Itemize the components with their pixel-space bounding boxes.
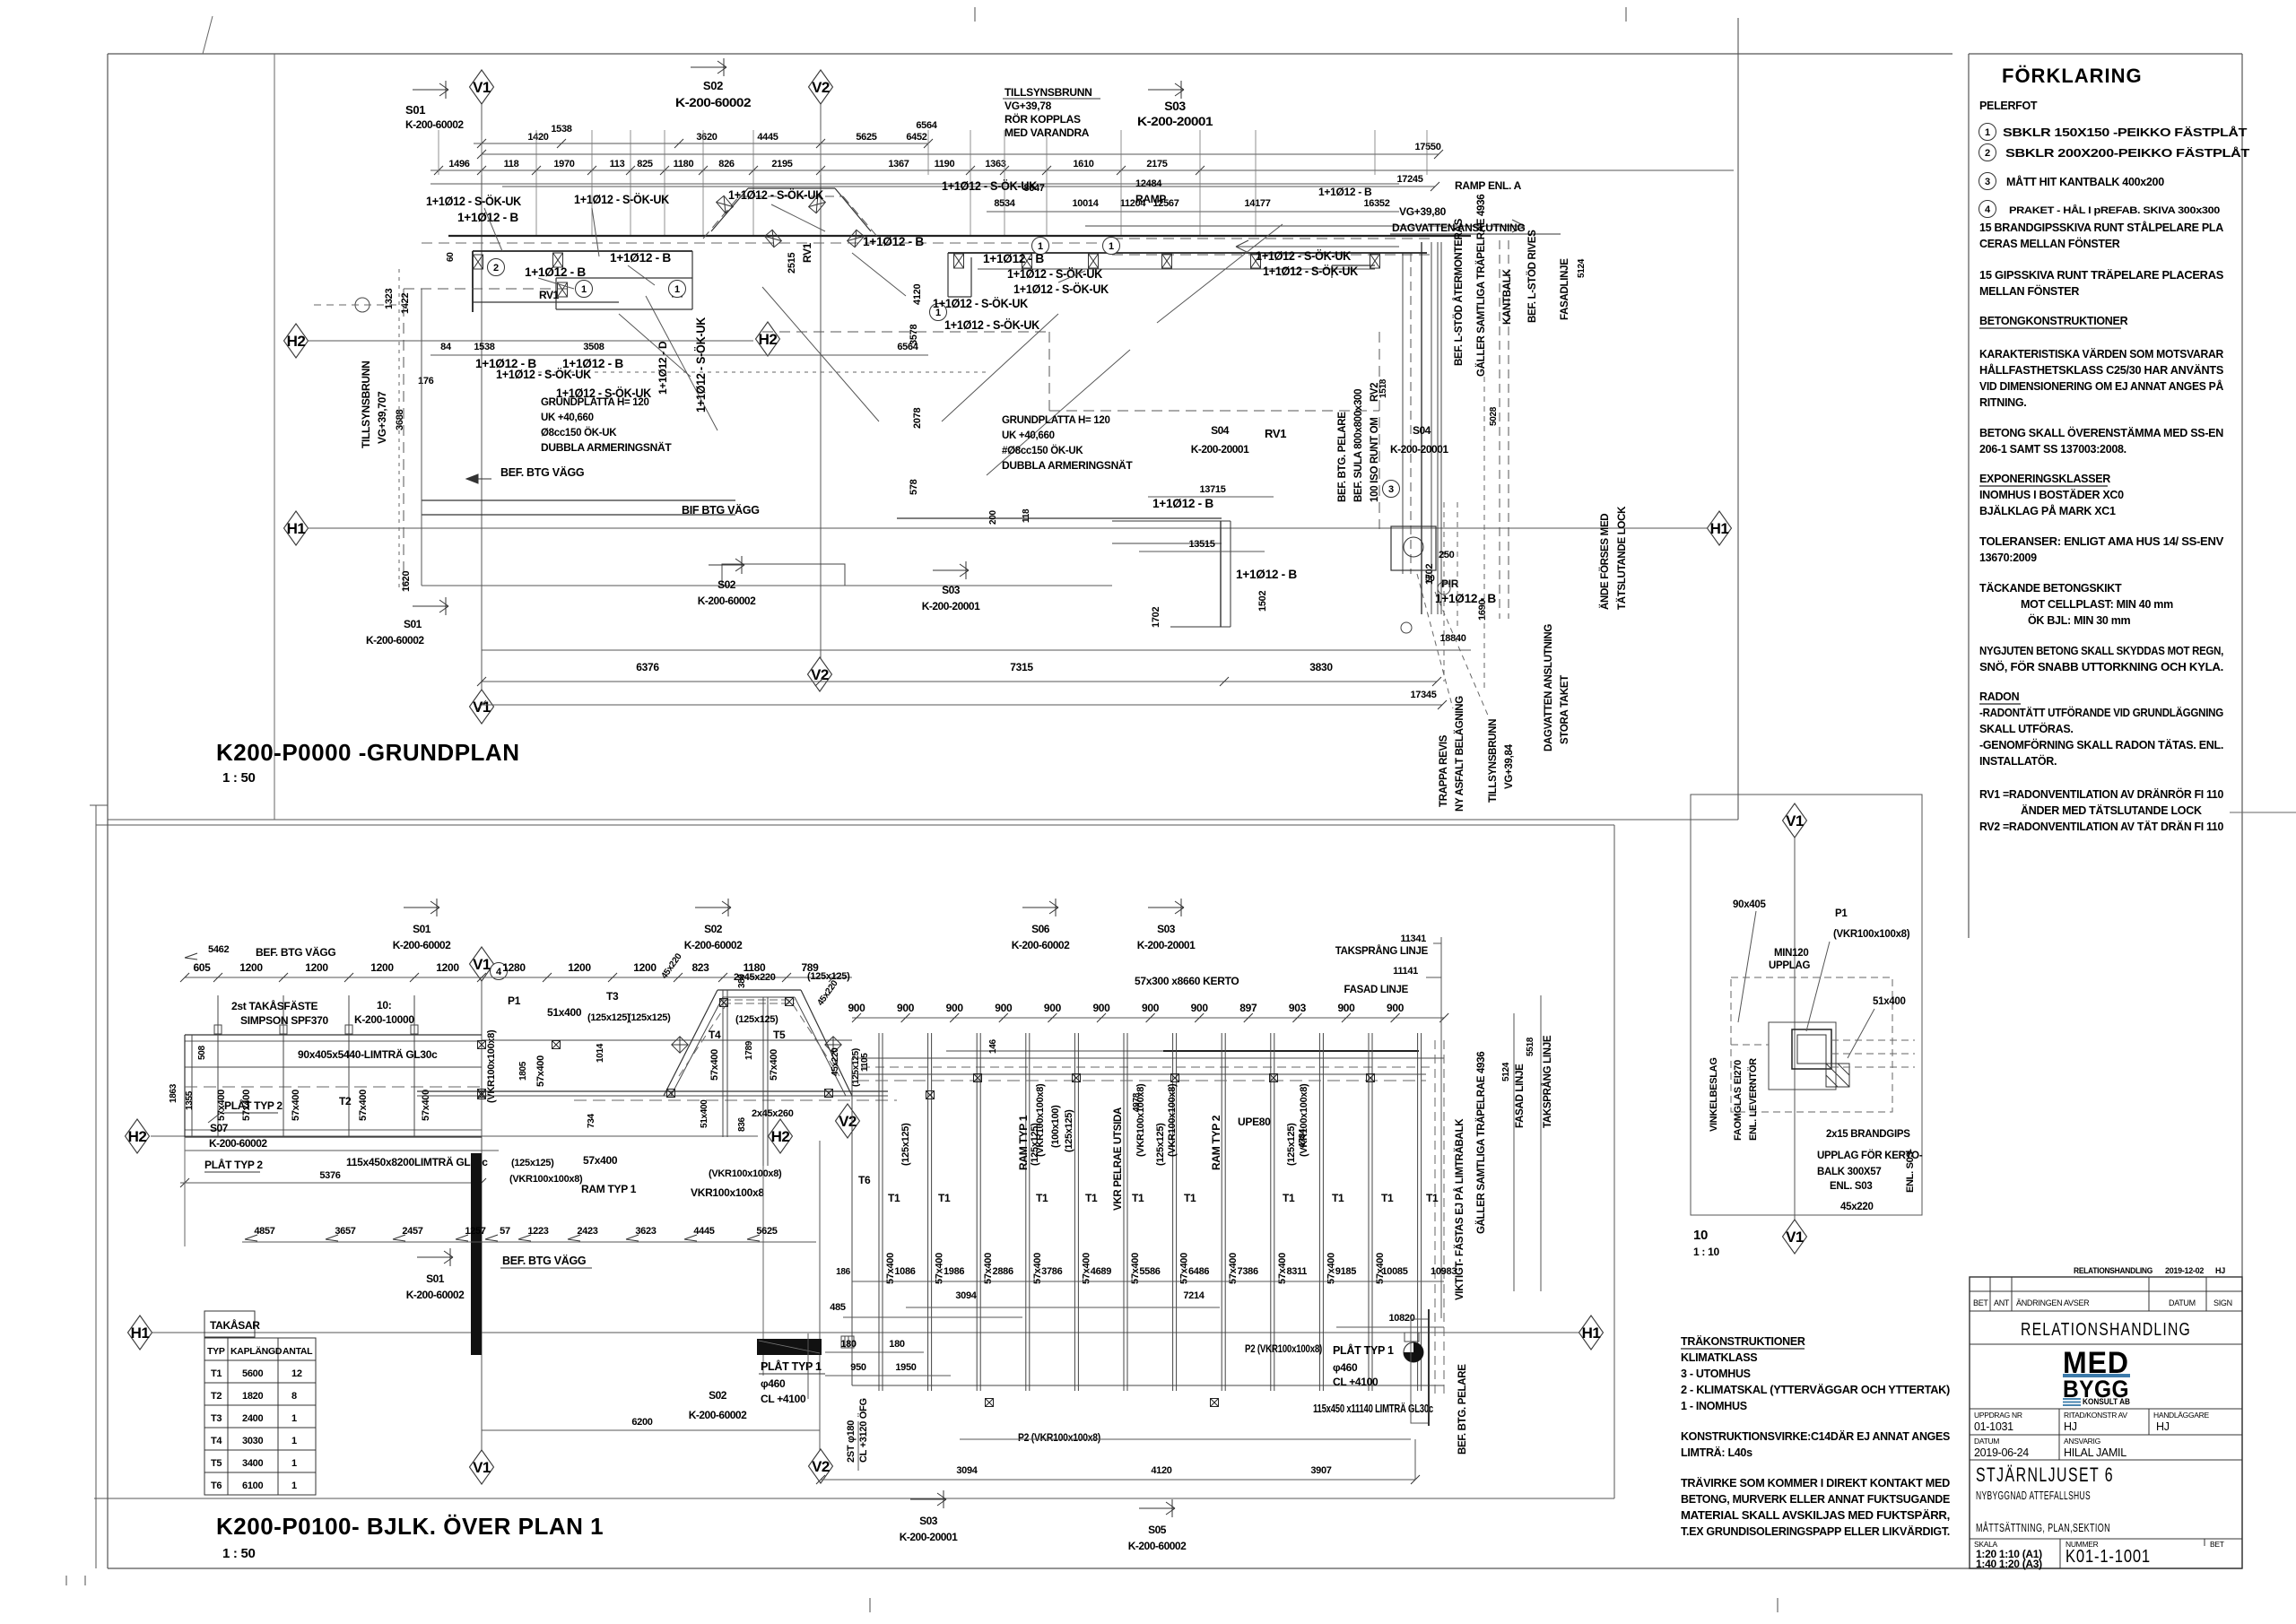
svg-text:1950: 1950 xyxy=(895,1362,916,1373)
svg-text:-GENOMFÖRNING SKALL RADON TÄTA: -GENOMFÖRNING SKALL RADON TÄTAS. ENL. xyxy=(1979,738,2223,751)
svg-text:SIMPSON SPF370: SIMPSON SPF370 xyxy=(240,1014,328,1027)
svg-text:180: 180 xyxy=(889,1339,905,1350)
svg-text:K-200-20001: K-200-20001 xyxy=(900,1531,958,1543)
svg-text:KANTBALK: KANTBALK xyxy=(1502,269,1513,325)
octagon pillar diamond right xyxy=(825,1037,841,1053)
svg-text:RITNING.: RITNING. xyxy=(1979,396,2026,409)
svg-text:V2: V2 xyxy=(839,1113,857,1130)
svg-text:900: 900 xyxy=(1337,1002,1355,1014)
svg-text:CL +3120 ÖFG: CL +3120 ÖFG xyxy=(857,1398,869,1463)
svg-text:RV1 =RADONVENTILATION AV DRÄNR: RV1 =RADONVENTILATION AV DRÄNRÖR FI 110 xyxy=(1979,787,2223,801)
diamond H2 right bottomplan xyxy=(769,1119,793,1153)
circle 3 right xyxy=(1383,481,1400,498)
svg-text:1+1Ø12 - S-ÖK-UK: 1+1Ø12 - S-ÖK-UK xyxy=(1256,248,1351,263)
svg-text:VG+39,84: VG+39,84 xyxy=(1504,743,1515,789)
svg-text:S05: S05 xyxy=(1148,1524,1167,1536)
svg-text:578: 578 xyxy=(909,479,919,495)
svg-text:1 : 50: 1 : 50 xyxy=(222,770,256,786)
svg-text:MÅTTSÄTTNING, PLAN,SEKTION: MÅTTSÄTTNING, PLAN,SEKTION xyxy=(1976,1521,2110,1534)
svg-text:FAOMGLAS EI270: FAOMGLAS EI270 xyxy=(1733,1060,1744,1141)
svg-text:RITAD/KONSTR AV: RITAD/KONSTR AV xyxy=(2064,1411,2127,1420)
svg-text:VG+39,707: VG+39,707 xyxy=(376,391,388,444)
svg-text:1: 1 xyxy=(291,1436,297,1446)
svg-text:K200-P0100- BJLK. ÖVER PLAN 1: K200-P0100- BJLK. ÖVER PLAN 1 xyxy=(216,1513,604,1540)
grid diamond H1 right xyxy=(1708,511,1732,545)
svg-text:18840: 18840 xyxy=(1439,633,1465,644)
svg-text:HÅLLFASTHETSKLASS C25/30 HAR A: HÅLLFASTHETSKLASS C25/30 HAR ANVÄNTS xyxy=(1979,363,2223,377)
ramp dashed band xyxy=(1112,238,1431,239)
svg-text:6452: 6452 xyxy=(906,132,926,143)
svg-text:T2: T2 xyxy=(211,1391,222,1402)
svg-text:NYBYGGNAD ATTEFALLSHUS: NYBYGGNAD ATTEFALLSHUS xyxy=(1976,1489,2091,1502)
svg-text:TOLERANSER: ENLIGT AMA HUS 14/: TOLERANSER: ENLIGT AMA HUS 14/ SS-ENV xyxy=(1979,535,2224,548)
svg-text:T6: T6 xyxy=(211,1481,222,1491)
svg-text:1+1Ø12 - S-ÖK-UK: 1+1Ø12 - S-ÖK-UK xyxy=(574,192,669,206)
svg-text:P2 (VKR100x100x8): P2 (VKR100x100x8) xyxy=(1245,1342,1322,1355)
svg-text:13515: 13515 xyxy=(1188,539,1214,550)
svg-text:(100x100): (100x100) xyxy=(1050,1105,1061,1148)
joist square P1 xyxy=(478,1041,486,1049)
pillar right band 1 xyxy=(1022,254,1032,268)
forklaring circle 3 xyxy=(1979,173,1996,190)
detail outer square xyxy=(1769,1022,1836,1090)
svg-text:TÄCKANDE BETONGSKIKT: TÄCKANDE BETONGSKIKT xyxy=(1979,581,2122,595)
sheet top border xyxy=(108,53,1952,55)
fold mark bottom 2 xyxy=(1777,1598,1779,1612)
svg-text:2x45x260: 2x45x260 xyxy=(752,1108,794,1119)
svg-text:1610: 1610 xyxy=(1073,159,1093,169)
octagon beam vertical extensions xyxy=(762,1166,764,1376)
svg-text:1 : 10: 1 : 10 xyxy=(1693,1246,1720,1258)
octagon plateau dashes xyxy=(723,999,795,1001)
svg-text:KARAKTERISTISKA VÄRDEN SOM MOT: KARAKTERISTISKA VÄRDEN SOM MOTSVARAR xyxy=(1979,347,2223,360)
svg-text:1+1Ø12 - S-ÖK-UK: 1+1Ø12 - S-ÖK-UK xyxy=(1013,282,1109,296)
svg-text:2078: 2078 xyxy=(912,408,923,429)
svg-text:45x220: 45x220 xyxy=(1840,1202,1874,1212)
svg-text:57: 57 xyxy=(500,1226,510,1237)
svg-text:T4: T4 xyxy=(211,1436,222,1446)
lower wall band lines xyxy=(422,499,735,501)
leader crossing top border xyxy=(203,16,213,54)
svg-text:MATERIAL SKALL AVSKILJAS MED F: MATERIAL SKALL AVSKILJAS MED FUKTSPÄRR, xyxy=(1681,1508,1950,1522)
svg-text:BETONG, MURVERK ELLER ANNAT FU: BETONG, MURVERK ELLER ANNAT FUKTSUGANDE xyxy=(1681,1493,1950,1506)
svg-text:(125x125): (125x125) xyxy=(1030,1123,1040,1166)
svg-text:57x400: 57x400 xyxy=(216,1090,227,1121)
svg-text:UPPDRAG NR: UPPDRAG NR xyxy=(1974,1411,2022,1420)
pillar left band b xyxy=(558,282,568,297)
svg-text:1789: 1789 xyxy=(744,1040,754,1060)
svg-text:1+1Ø12 - S-ÖK-UK: 1+1Ø12 - S-ÖK-UK xyxy=(426,194,521,208)
svg-text:MELLAN FÖNSTER: MELLAN FÖNSTER xyxy=(1979,284,2079,298)
svg-text:1+1Ø12 - S-ÖK-UK: 1+1Ø12 - S-ÖK-UK xyxy=(693,317,708,413)
svg-text:(125x125): (125x125) xyxy=(900,1123,911,1166)
svg-text:7315: 7315 xyxy=(1010,661,1033,673)
svg-text:S03: S03 xyxy=(1157,923,1176,935)
svg-text:6376: 6376 xyxy=(636,661,659,673)
svg-text:S04: S04 xyxy=(1413,424,1431,437)
svg-text:KAPLÄNGD: KAPLÄNGD xyxy=(230,1345,283,1357)
svg-text:NYGJUTEN BETONG SKALL SKYDDAS: NYGJUTEN BETONG SKALL SKYDDAS MOT REGN, xyxy=(1979,645,2223,657)
svg-text:BET: BET xyxy=(2210,1540,2224,1549)
svg-text:1280: 1280 xyxy=(502,961,526,974)
dim rows bottom of grundplan xyxy=(482,649,1471,651)
svg-text:7386: 7386 xyxy=(1238,1266,1258,1277)
revision row lines xyxy=(1970,1290,2242,1292)
svg-text:(125x125): (125x125) xyxy=(735,1014,778,1025)
svg-text:RÖR KOPPLAS: RÖR KOPPLAS xyxy=(1004,112,1081,126)
svg-text:57x400: 57x400 xyxy=(421,1090,431,1121)
svg-text:1690: 1690 xyxy=(1477,600,1488,621)
diamond V2 bottom bottomplan xyxy=(809,1449,833,1483)
circle 1 b xyxy=(669,281,686,298)
V1 detail viewport frame xyxy=(1691,795,1922,1215)
left bef wall vertical top plan xyxy=(421,289,422,586)
V1 detail grid line xyxy=(1794,834,1796,1226)
svg-text:950: 950 xyxy=(850,1362,866,1373)
svg-text:113: 113 xyxy=(610,159,625,169)
right section bottom dims xyxy=(852,1281,1444,1282)
svg-text:2515: 2515 xyxy=(787,253,797,274)
svg-text:V1: V1 xyxy=(473,1459,491,1476)
svg-text:57x400: 57x400 xyxy=(535,1055,546,1087)
svg-text:VKR PELRAE UTSIDA: VKR PELRAE UTSIDA xyxy=(1113,1107,1124,1211)
svg-text:HJ: HJ xyxy=(2064,1420,2077,1433)
roof notch diagonals dashed xyxy=(703,196,739,239)
svg-text:2: 2 xyxy=(1985,148,1990,159)
svg-text:BET: BET xyxy=(1973,1298,1988,1307)
svg-text:1422: 1422 xyxy=(400,293,411,314)
svg-text:4445: 4445 xyxy=(757,132,778,143)
svg-text:118: 118 xyxy=(504,159,519,169)
left wing joists xyxy=(217,995,219,1137)
svg-text:6564: 6564 xyxy=(916,120,937,131)
svg-text:K01-1-1001: K01-1-1001 xyxy=(2066,1547,2151,1567)
svg-text:2019-06-24: 2019-06-24 xyxy=(1974,1446,2029,1459)
svg-text:8: 8 xyxy=(291,1391,297,1402)
svg-text:7214: 7214 xyxy=(1183,1290,1205,1301)
svg-text:V1: V1 xyxy=(1786,812,1804,829)
svg-text:10:: 10: xyxy=(377,999,391,1012)
svg-text:90x405x5440-LIMTRÄ GL30c: 90x405x5440-LIMTRÄ GL30c xyxy=(298,1047,438,1061)
svg-text:5124: 5124 xyxy=(1577,258,1587,278)
svg-text:3830: 3830 xyxy=(1309,661,1333,673)
svg-text:T1: T1 xyxy=(1085,1192,1098,1204)
svg-text:T1: T1 xyxy=(1132,1192,1144,1204)
svg-text:1180: 1180 xyxy=(674,159,694,169)
svg-text:1: 1 xyxy=(581,284,587,295)
svg-text:(125x125): (125x125) xyxy=(807,971,850,982)
svg-text:57x400: 57x400 xyxy=(709,1049,720,1081)
svg-text:V1: V1 xyxy=(473,79,491,96)
svg-text:1702: 1702 xyxy=(1151,607,1161,628)
bottom area frame xyxy=(95,805,97,1568)
svg-text:4: 4 xyxy=(496,967,502,977)
svg-text:NY ASFALT BELÄGNING: NY ASFALT BELÄGNING xyxy=(1454,696,1465,812)
kantbalk vertical band right xyxy=(1402,253,1404,574)
svg-text:5600: 5600 xyxy=(242,1368,263,1379)
svg-text:1200: 1200 xyxy=(305,961,328,974)
svg-text:6200: 6200 xyxy=(631,1417,652,1428)
svg-text:STORA TAKET: STORA TAKET xyxy=(1560,675,1570,744)
svg-text:K-200-60002: K-200-60002 xyxy=(209,1137,267,1150)
svg-text:S02: S02 xyxy=(717,578,736,591)
svg-text:1+1Ø12 - S-ÖK-UK: 1+1Ø12 - S-ÖK-UK xyxy=(933,296,1028,310)
svg-text:DUBBLA ARMERINGSNÄT: DUBBLA ARMERINGSNÄT xyxy=(1002,458,1133,472)
svg-text:5518: 5518 xyxy=(1526,1037,1535,1056)
svg-text:1200: 1200 xyxy=(436,961,459,974)
grid line V2 top plan xyxy=(820,100,822,668)
svg-text:S01: S01 xyxy=(426,1272,445,1285)
svg-text:508: 508 xyxy=(197,1045,207,1060)
svg-text:2st TAKÅSFÄSTE: 2st TAKÅSFÄSTE xyxy=(231,999,318,1012)
svg-text:1+1Ø12 - D: 1+1Ø12 - D xyxy=(657,341,669,395)
svg-text:836: 836 xyxy=(737,1116,747,1132)
svg-text:2019-12-02: 2019-12-02 xyxy=(2165,1266,2204,1275)
svg-text:S04: S04 xyxy=(1211,424,1230,437)
svg-text:200: 200 xyxy=(988,509,998,525)
svg-text:V2: V2 xyxy=(812,1458,830,1475)
svg-text:H1: H1 xyxy=(287,520,306,537)
beam conn a xyxy=(974,1074,982,1082)
pillar right band 2 xyxy=(1089,254,1099,268)
grid line H2 top plan xyxy=(309,340,753,342)
svg-text:INSTALLATÖR.: INSTALLATÖR. xyxy=(1979,754,2057,768)
svg-text:S07: S07 xyxy=(210,1122,229,1134)
svg-text:900: 900 xyxy=(1191,1002,1209,1014)
svg-text:P2 (VKR100x100x8): P2 (VKR100x100x8) xyxy=(1018,1431,1100,1444)
svg-text:ÖK BJL: MIN 30 mm: ÖK BJL: MIN 30 mm xyxy=(2028,613,2131,627)
svg-text:5625: 5625 xyxy=(856,132,876,143)
svg-text:900: 900 xyxy=(1387,1002,1405,1014)
grid H2 bottom plan xyxy=(151,1135,758,1137)
svg-text:8311: 8311 xyxy=(1286,1266,1307,1277)
pillar roof notch left xyxy=(717,195,734,213)
pillar right band 3 xyxy=(1162,254,1172,268)
svg-text:57x300 x8660 KERTO: 57x300 x8660 KERTO xyxy=(1135,975,1239,987)
svg-text:BJÄLKLAG PÅ MARK XC1: BJÄLKLAG PÅ MARK XC1 xyxy=(1979,504,2116,517)
section arrow S03 top xyxy=(1148,81,1184,99)
top plan viewport frame xyxy=(1737,18,1739,820)
svg-text:TÄTSLUTANDE LOCK: TÄTSLUTANDE LOCK xyxy=(1616,506,1628,610)
svg-text:17550: 17550 xyxy=(1414,142,1440,152)
svg-text:1420: 1420 xyxy=(527,132,548,143)
octagon joist right xyxy=(786,998,794,1006)
svg-text:11341: 11341 xyxy=(1401,934,1427,944)
svg-text:SIGN: SIGN xyxy=(2213,1298,2232,1307)
fold mark top 2 xyxy=(1625,7,1627,22)
svg-text:1805: 1805 xyxy=(518,1061,528,1081)
svg-text:K-200-60002: K-200-60002 xyxy=(366,634,424,647)
P2 square b xyxy=(1211,1399,1219,1407)
detail dashed frame xyxy=(1731,977,1892,1112)
info row line xyxy=(1970,1408,2242,1410)
svg-text:MOT CELLPLAST: MIN 40 mm: MOT CELLPLAST: MIN 40 mm xyxy=(2021,598,2173,611)
grid V2 bottom plan xyxy=(819,1141,821,1453)
black bar V1 xyxy=(471,1153,482,1355)
svg-text:1+1Ø12 - B: 1+1Ø12 - B xyxy=(1236,567,1297,581)
svg-text:T1: T1 xyxy=(211,1368,222,1379)
dashed outline mid xyxy=(762,331,1049,333)
svg-text:K-200-60002: K-200-60002 xyxy=(684,939,743,951)
detail leader lines xyxy=(1738,911,1756,1022)
svg-text:HANDLÄGGARE: HANDLÄGGARE xyxy=(2153,1411,2210,1420)
svg-text:S01: S01 xyxy=(405,103,425,117)
svg-text:K-200-20001: K-200-20001 xyxy=(1390,443,1448,456)
svg-text:PLÅT TYP 2: PLÅT TYP 2 xyxy=(224,1099,283,1112)
grid diamond V2 bottom xyxy=(808,657,832,691)
svg-text:3 - UTOMHUS: 3 - UTOMHUS xyxy=(1681,1368,1751,1380)
svg-text:5462: 5462 xyxy=(208,944,229,955)
svg-text:UPPLAG: UPPLAG xyxy=(1769,960,1810,971)
svg-text:2400: 2400 xyxy=(242,1413,263,1424)
circle 1 a xyxy=(576,281,593,298)
svg-text:3: 3 xyxy=(1388,484,1394,495)
svg-text:MÅTT HIT KANTBALK 400x200: MÅTT HIT KANTBALK 400x200 xyxy=(2006,175,2164,188)
diamond H1 right bottomplan xyxy=(1579,1316,1604,1350)
right section outline xyxy=(946,1050,1163,1052)
svg-text:ENL. LEVERNTÖR: ENL. LEVERNTÖR xyxy=(1747,1058,1759,1141)
dashed verticals bottom right xyxy=(1443,502,1445,682)
svg-text:ANSVARIG: ANSVARIG xyxy=(2064,1437,2100,1446)
center beams xyxy=(482,1039,852,1041)
svg-text:3786: 3786 xyxy=(1041,1266,1062,1277)
svg-text:1+1Ø12 - S-ÖK-UK: 1+1Ø12 - S-ÖK-UK xyxy=(496,367,591,381)
svg-text:VIKTIGT- FÄSTAS EJ PÅ LIMTRÄBA: VIKTIGT- FÄSTAS EJ PÅ LIMTRÄBALK xyxy=(1454,1118,1465,1300)
svg-text:8534: 8534 xyxy=(994,198,1015,209)
diamond V2 mid bottomplan xyxy=(836,1104,860,1138)
svg-text:146: 146 xyxy=(988,1038,998,1054)
svg-text:S03: S03 xyxy=(942,584,961,596)
svg-text:RAM TYP 1: RAM TYP 1 xyxy=(1017,1115,1030,1170)
svg-text:51x400: 51x400 xyxy=(700,1099,709,1128)
right section joists T1 xyxy=(878,1033,880,1391)
svg-text:3508: 3508 xyxy=(583,342,604,352)
svg-text:UK +40,660: UK +40,660 xyxy=(1002,430,1055,441)
pillar left band a xyxy=(553,253,563,267)
svg-text:1+1Ø12 - B: 1+1Ø12 - B xyxy=(983,251,1044,265)
svg-text:BEF. BTG VÄGG: BEF. BTG VÄGG xyxy=(256,945,335,959)
svg-text:1200: 1200 xyxy=(370,961,394,974)
svg-text:BEF. BTG. PELARE: BEF. BTG. PELARE xyxy=(1337,412,1348,502)
forklaring circle 2 xyxy=(1979,144,1996,161)
top-right corner walls xyxy=(1375,252,1427,254)
svg-text:15 BRANDGIPSSKIVA RUNT STÅLPEL: 15 BRANDGIPSSKIVA RUNT STÅLPELARE PLA xyxy=(1979,221,2223,234)
svg-text:V2: V2 xyxy=(811,666,829,683)
svg-text:T6: T6 xyxy=(858,1174,871,1186)
svg-text:TYP: TYP xyxy=(207,1346,225,1357)
svg-text:S03: S03 xyxy=(1164,99,1186,113)
svg-text:H2: H2 xyxy=(771,1128,790,1145)
bottom plan top dim row xyxy=(185,977,852,978)
svg-text:DATUM: DATUM xyxy=(1974,1437,1999,1446)
svg-text:(125x125): (125x125) xyxy=(1155,1123,1166,1166)
svg-text:T5: T5 xyxy=(211,1458,222,1469)
svg-text:TAKSPRÅNG LINJE: TAKSPRÅNG LINJE xyxy=(1542,1035,1553,1128)
svg-text:57x400: 57x400 xyxy=(291,1090,301,1121)
svg-text:1 : 50: 1 : 50 xyxy=(222,1546,256,1561)
ramp long arrow xyxy=(1085,225,1525,227)
octagon bay outline xyxy=(664,990,717,1096)
svg-text:KLIMATKLASS: KLIMATKLASS xyxy=(1681,1351,1757,1364)
svg-text:3094: 3094 xyxy=(956,1465,978,1476)
svg-text:1200: 1200 xyxy=(239,961,263,974)
svg-text:1355: 1355 xyxy=(185,1090,195,1110)
svg-text:1200: 1200 xyxy=(568,961,591,974)
sheet bottom border xyxy=(108,1568,2242,1569)
svg-text:13715: 13715 xyxy=(1199,484,1225,495)
svg-text:S03: S03 xyxy=(919,1515,938,1527)
right band wall top xyxy=(948,252,1375,254)
svg-text:TRÄVIRKE SOM KOMMER I DIREKT K: TRÄVIRKE SOM KOMMER I DIREKT KONTAKT MED xyxy=(1681,1476,1950,1489)
plat typ1 small rect xyxy=(841,1336,854,1348)
svg-text:RV1: RV1 xyxy=(539,289,559,301)
svg-text:2175: 2175 xyxy=(1146,159,1167,169)
svg-text:3400: 3400 xyxy=(242,1458,263,1469)
svg-text:4: 4 xyxy=(1985,204,1991,215)
svg-text:VINKELBESLAG: VINKELBESLAG xyxy=(1709,1057,1719,1132)
svg-text:K200-P0000 -GRUNDPLAN: K200-P0000 -GRUNDPLAN xyxy=(216,739,519,766)
svg-text:V1: V1 xyxy=(1786,1229,1804,1246)
svg-text:TRAPPA REVIS: TRAPPA REVIS xyxy=(1439,734,1449,807)
svg-text:SBKLR 200X200-PEIKKO FÄSTPLÅT: SBKLR 200X200-PEIKKO FÄSTPLÅT xyxy=(2005,146,2250,160)
svg-text:RV1: RV1 xyxy=(801,243,813,263)
svg-text:ENL. S03: ENL. S03 xyxy=(1830,1181,1872,1192)
svg-text:DAGVATTEN ANSLUTNING: DAGVATTEN ANSLUTNING xyxy=(1544,624,1554,751)
svg-text:RAM TYP 2: RAM TYP 2 xyxy=(1210,1115,1222,1170)
diamond V1 bottom bottomplan xyxy=(470,1450,494,1484)
svg-text:VKR100x100x8: VKR100x100x8 xyxy=(691,1186,764,1199)
svg-text:K-200-60002: K-200-60002 xyxy=(1128,1540,1187,1552)
svg-text:1086: 1086 xyxy=(894,1266,915,1277)
svg-text:VID DIMENSIONERING OM EJ ANNAT: VID DIMENSIONERING OM EJ ANNAT ANGES PÅ xyxy=(1979,379,2223,393)
svg-text:H1: H1 xyxy=(1582,1324,1601,1342)
octagon inner dashed slopes xyxy=(679,1004,726,1076)
svg-text:186: 186 xyxy=(836,1267,851,1277)
svg-text:PELERFOT: PELERFOT xyxy=(1979,100,2038,112)
svg-text:K-200-20001: K-200-20001 xyxy=(1191,443,1249,456)
grid line H1 top plan xyxy=(309,527,1707,529)
svg-text:T4: T4 xyxy=(709,1029,721,1041)
svg-text:900: 900 xyxy=(897,1002,915,1014)
svg-text:K-200-20001: K-200-20001 xyxy=(1137,939,1196,951)
svg-text:51x400: 51x400 xyxy=(1873,996,1906,1007)
svg-text:K-200-60002: K-200-60002 xyxy=(1012,939,1070,951)
rect bef btg pelare column xyxy=(1411,1319,1429,1423)
svg-text:KONSULT AB: KONSULT AB xyxy=(2083,1397,2130,1406)
svg-text:84: 84 xyxy=(440,342,452,352)
svg-text:BEF. L-STÖD ÅTERMONTERAS: BEF. L-STÖD ÅTERMONTERAS xyxy=(1453,218,1465,366)
left dashed leader vertical xyxy=(398,269,400,592)
svg-text:FÖRKLARING: FÖRKLARING xyxy=(2002,65,2143,87)
svg-text:RAMP ENL. A: RAMP ENL. A xyxy=(1455,179,1522,192)
svg-text:RAM TYP 1: RAM TYP 1 xyxy=(581,1183,637,1195)
circle 1 e xyxy=(1103,238,1120,255)
svg-text:1620: 1620 xyxy=(401,571,412,592)
svg-text:TRÄKONSTRUKTIONER: TRÄKONSTRUKTIONER xyxy=(1681,1334,1805,1348)
diamond H1 left bottomplan xyxy=(128,1316,152,1350)
svg-text:5376: 5376 xyxy=(319,1170,340,1181)
grid diamond V1 bottom xyxy=(470,690,494,724)
svg-text:S01: S01 xyxy=(404,618,422,630)
P2 square a xyxy=(986,1399,994,1407)
svg-text:T1: T1 xyxy=(888,1192,900,1204)
svg-text:H1: H1 xyxy=(1710,520,1729,537)
svg-text:2 - KLIMATSKAL (YTTERVÄGGAR OC: 2 - KLIMATSKAL (YTTERVÄGGAR OCH YTTERTAK… xyxy=(1681,1383,1950,1396)
skala row xyxy=(1970,1538,2242,1540)
svg-text:57x400: 57x400 xyxy=(769,1049,779,1081)
svg-text:T1: T1 xyxy=(1283,1192,1295,1204)
svg-text:1970: 1970 xyxy=(553,159,574,169)
